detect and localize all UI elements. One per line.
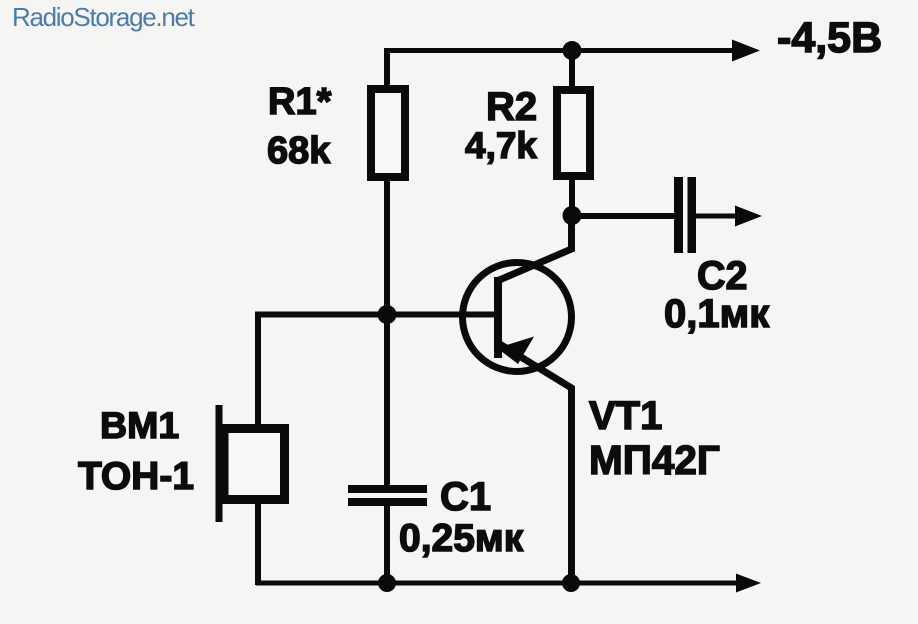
svg-text:RadioStorage.net: RadioStorage.net [12, 2, 196, 32]
transistor VT1 circle [463, 263, 572, 372]
svg-text:R1*: R1* [268, 81, 332, 123]
site logo RadioStorage.net [12, 2, 196, 32]
junction dot: collector node [563, 206, 582, 225]
svg-text:R2: R2 [486, 85, 537, 129]
svg-text:0,1мк: 0,1мк [664, 292, 770, 336]
junction dot: emitter / bottom rail [562, 574, 580, 592]
svg-text:C1: C1 [440, 475, 491, 519]
wire: C2 to output arrow [696, 214, 736, 219]
label VT1 [589, 394, 662, 438]
wire: R1 top lead [384, 48, 390, 88]
wire: top supply rail [385, 48, 735, 53]
junction dot: top rail / R2 [563, 41, 582, 60]
wire: R2 top lead [569, 48, 575, 88]
label МП42Г [589, 437, 720, 483]
wire: collector node to C2 [572, 213, 674, 219]
power arrow -4,5V [732, 40, 760, 62]
transistor VT1 emitter line [498, 343, 572, 583]
label R2 [486, 85, 537, 129]
wire: bottom rail [256, 581, 737, 586]
wire: C1 bottom lead [384, 506, 390, 585]
label C2 [697, 254, 748, 298]
speaker BM1 body box [224, 429, 285, 500]
svg-text:68k: 68k [267, 130, 331, 172]
transistor VT1 emitter arrow (PNP, pointing to base) [497, 337, 534, 365]
label -4,5В [777, 14, 882, 62]
wire: BM1 bottom lead [255, 503, 261, 585]
svg-text:МП42Г: МП42Г [589, 437, 720, 483]
wire: R1 bottom lead down to base node [384, 181, 390, 318]
wire: R2 bottom lead to collector node [569, 176, 575, 218]
capacitor C2 plates [674, 177, 696, 253]
output arrow (right of C2) [735, 206, 762, 227]
bottom output arrow [736, 574, 761, 593]
junction dot: base node [378, 305, 397, 324]
resistor R1 body [371, 89, 405, 177]
label 0,25мк [399, 517, 524, 560]
label ТОН-1 [78, 455, 194, 498]
speaker BM1 membrane bar [216, 405, 223, 522]
junction dot: C1 / bottom rail [378, 574, 396, 592]
wire: left branch down from base node [255, 312, 261, 428]
svg-text:ТОН-1: ТОН-1 [78, 455, 194, 498]
transistor VT1 collector line [497, 215, 572, 281]
wire: base wire from left branch to transistor base [255, 312, 498, 318]
svg-text:0,25мк: 0,25мк [399, 517, 524, 560]
wire: C1 top lead (from base node) [384, 318, 390, 486]
label 4,7k [465, 125, 537, 166]
label C1 [440, 475, 491, 519]
svg-text:4,7k: 4,7k [465, 125, 537, 166]
label 68k [267, 130, 331, 172]
resistor R2 body [557, 90, 590, 176]
transistor VT1 base bar [494, 277, 502, 358]
svg-text:-4,5В: -4,5В [777, 14, 882, 62]
label BM1 [100, 404, 179, 446]
svg-text:BM1: BM1 [100, 404, 179, 446]
svg-text:VT1: VT1 [589, 394, 662, 438]
label R1* [268, 81, 332, 123]
label 0,1мк [664, 292, 770, 336]
capacitor C1 plates [348, 485, 427, 506]
